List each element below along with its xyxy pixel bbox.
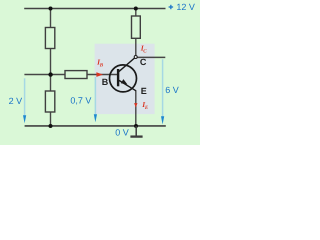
node: rail/divider junction [49,7,53,11]
current arrow IB [96,72,103,77]
wire: base branch from divider tap [24,74,117,76]
current arrow IE [134,103,137,107]
svg-text:E: E [144,105,149,111]
voltage arrow 2V [24,78,26,118]
svg-text:0 V: 0 V [115,127,129,137]
svg-text:B: B [102,77,109,87]
svg-text:6 V: 6 V [165,85,179,95]
node: divider/ground junction [49,124,53,128]
svg-text:C: C [140,57,147,67]
supply label +12V [169,2,195,12]
transistor highlight box [95,44,155,114]
pin terminal C open circle [134,56,137,59]
wire: +12V supply rail [24,7,165,9]
svg-text:B: B [99,63,104,69]
voltage arrow 0,7V [94,77,96,117]
wire: left divider branch [50,9,52,127]
resistor R1 upper divider [45,28,54,49]
resistor RC collector [132,16,141,38]
svg-text:2 V: 2 V [9,96,23,106]
transistor Q1 [110,58,137,92]
resistor RB base series [65,71,87,79]
voltage arrow 6V [162,59,164,117]
wire: collector branch [135,9,137,56]
svg-text:E: E [141,86,147,96]
wire: emitter to ground rail [135,90,137,126]
wire: ground rail 0V [25,125,166,127]
node: rail/collector junction [134,7,138,11]
node: divider tap junction [48,72,52,76]
svg-text:0,7 V: 0,7 V [70,95,91,105]
ground [130,126,142,137]
resistor R2 lower divider [45,91,54,112]
svg-text:12 V: 12 V [176,2,195,12]
node: emitter/ground junction [134,124,138,128]
wire: collector measurement stub [137,56,165,58]
